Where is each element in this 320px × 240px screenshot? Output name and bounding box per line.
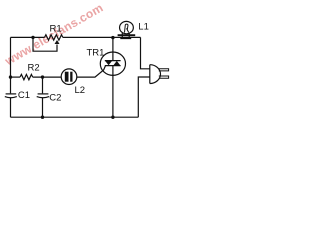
svg-text:C1: C1 [18,90,30,101]
svg-text:L1: L1 [138,22,149,33]
svg-text:TR1: TR1 [87,48,105,59]
svg-text:R1: R1 [50,23,62,34]
svg-text:C2: C2 [49,93,61,104]
svg-text:L2: L2 [75,85,86,96]
svg-text:R2: R2 [28,63,40,74]
